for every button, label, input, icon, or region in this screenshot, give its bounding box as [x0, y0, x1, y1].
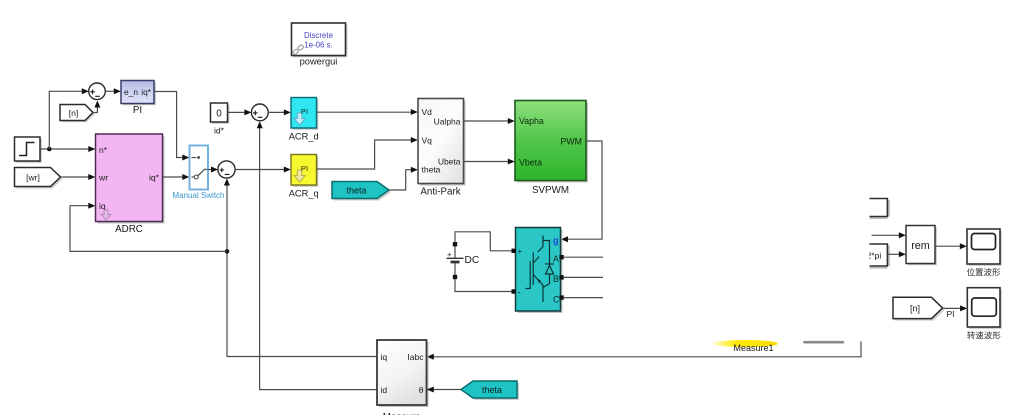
- from tag [n] lower named PI: [893, 297, 955, 320]
- wire theta tag to Anti-Park theta: [389, 167, 418, 190]
- svg-text:Anti-Park: Anti-Park: [420, 187, 460, 198]
- svg-text:B: B: [553, 274, 559, 284]
- wire constant0 to sum2: [228, 109, 252, 115]
- svg-text:Measure1: Measure1: [733, 343, 773, 353]
- wire [n] to scope2: [943, 305, 968, 311]
- wire into rem input 1: [872, 232, 906, 238]
- svg-text:ADRC: ADRC: [115, 224, 143, 235]
- manual switch: [172, 146, 224, 201]
- svg-text:A: A: [553, 254, 559, 264]
- block SVPWM: [515, 101, 588, 197]
- junction dot step branch: [47, 147, 52, 152]
- scope position waveform: [967, 229, 1002, 276]
- svg-text:iq: iq: [99, 201, 106, 211]
- wire [n] to sum1 bottom: [93, 101, 100, 113]
- svg-text:ACR_q: ACR_q: [289, 189, 319, 199]
- svg-text:Discrete: Discrete: [304, 31, 334, 40]
- from tag theta to Measure flipped: [461, 381, 519, 400]
- wire step branch to sum1: [49, 88, 89, 149]
- svg-text:ACR_d: ACR_d: [289, 132, 319, 142]
- wire DC- to bridge -: [455, 279, 514, 292]
- wire sum1 to PI: [105, 88, 121, 94]
- svg-text:g: g: [553, 236, 559, 246]
- constant 0 id*: [211, 103, 230, 136]
- svg-text:[n]: [n]: [910, 303, 920, 313]
- svg-text:theta: theta: [346, 185, 366, 195]
- svg-text:+: +: [447, 250, 452, 259]
- svg-text:theta: theta: [482, 385, 502, 395]
- wire ACR_d to Anti-Park Vd: [317, 109, 418, 115]
- svg-text:Vq: Vq: [422, 135, 433, 145]
- svg-text:PI: PI: [301, 107, 308, 116]
- svg-text:Vbeta: Vbeta: [519, 157, 542, 167]
- svg-text:id: id: [381, 385, 388, 395]
- wire Ubeta to Vbeta: [463, 159, 515, 165]
- svg-text:Manual Switch: Manual Switch: [172, 191, 224, 200]
- annotation Measure1 search highlight: [712, 340, 778, 353]
- wire rem to scope1: [935, 243, 967, 249]
- svg-text:PI: PI: [946, 309, 954, 319]
- block Measure flipped: [377, 340, 429, 415]
- svg-text:Vd: Vd: [422, 107, 433, 117]
- svg-text:wr: wr: [98, 172, 108, 182]
- svg-text:n*: n*: [99, 145, 108, 155]
- wire [wr] to ADRC wr: [61, 174, 96, 180]
- block ACR_d: [289, 98, 319, 142]
- wire Measure iq to sum3 bottom: [224, 179, 377, 357]
- svg-text:iq*: iq*: [141, 87, 152, 97]
- wire sum2 to ACR_d: [268, 109, 291, 115]
- block ACR_q: [289, 155, 319, 199]
- wire theta tag to Measure theta: [427, 387, 461, 393]
- block universal bridge inverter: [512, 228, 564, 314]
- wire manual switch to sum3: [208, 167, 218, 173]
- junction dot iq branch: [225, 249, 230, 254]
- wire ADRC iq* to manual switch bottom: [163, 174, 190, 180]
- svg-text:iq*: iq*: [149, 172, 160, 182]
- scope speed waveform: [967, 288, 1002, 340]
- wire bridge C out: [563, 297, 603, 299]
- step source: [15, 137, 42, 163]
- svg-text:PI: PI: [133, 105, 142, 116]
- wire DC+ to bridge +: [455, 232, 514, 251]
- block PI speed controller: [121, 81, 156, 117]
- from tag [n] upper: [60, 105, 95, 123]
- wire Iabc feedback into Measure: [427, 341, 861, 360]
- partial block upper right: [870, 199, 890, 219]
- svg-text:0: 0: [216, 108, 222, 119]
- constant 2*pi partial: [860, 244, 889, 268]
- svg-text:iq: iq: [381, 352, 388, 362]
- svg-text:C: C: [553, 294, 560, 304]
- svg-text:powergui: powergui: [300, 57, 338, 67]
- sum S3 iq error: [218, 161, 235, 178]
- wire step to ADRC n*: [40, 146, 95, 152]
- svg-text:e_n: e_n: [124, 87, 138, 97]
- svg-text:Iabc: Iabc: [407, 352, 424, 362]
- wire PI to manual switch top: [154, 92, 189, 161]
- svg-text:Vapha: Vapha: [519, 116, 544, 126]
- svg-text:id*: id*: [214, 126, 225, 136]
- svg-text:rem: rem: [911, 240, 930, 252]
- block ADRC: [96, 134, 165, 235]
- DC source battery: [447, 242, 480, 279]
- sum S2 id error: [251, 104, 268, 121]
- svg-text:Ualpha: Ualpha: [434, 117, 461, 127]
- svg-text:[n]: [n]: [69, 108, 79, 118]
- selected wire segment: [805, 341, 844, 344]
- svg-text:PI: PI: [301, 164, 308, 173]
- svg-text:1e-06 s.: 1e-06 s.: [304, 40, 333, 49]
- from tag [wr]: [15, 168, 63, 189]
- svg-text:θ: θ: [419, 385, 424, 395]
- block rem: [906, 226, 937, 266]
- wire sum3 to ACR_q: [235, 167, 291, 173]
- wire bridge A out: [563, 256, 603, 258]
- wire 2*pi to rem input 2: [887, 251, 905, 257]
- svg-text:-: -: [518, 287, 521, 297]
- wire PWM to bridge gate g: [561, 141, 602, 242]
- wire Measure id to sum2 bottom: [257, 121, 377, 389]
- from tag theta to Anti-Park: [332, 182, 391, 201]
- block Anti-Park: [418, 99, 466, 198]
- svg-text:DC: DC: [465, 255, 480, 266]
- svg-text:SVPWM: SVPWM: [532, 185, 569, 196]
- wire iq branch to ADRC iq: [70, 203, 227, 252]
- sum S1 speed error: [89, 83, 106, 100]
- wire bridge B out: [563, 276, 603, 278]
- svg-text:[wr]: [wr]: [26, 173, 40, 183]
- svg-text:PWM: PWM: [561, 136, 583, 146]
- wire Ualpha to Vapha: [463, 118, 515, 124]
- wire ACR_q to Anti-Park Vq: [317, 137, 418, 169]
- svg-text:Ubeta: Ubeta: [438, 157, 461, 167]
- block powergui: [292, 23, 348, 67]
- svg-text:+: +: [518, 247, 523, 256]
